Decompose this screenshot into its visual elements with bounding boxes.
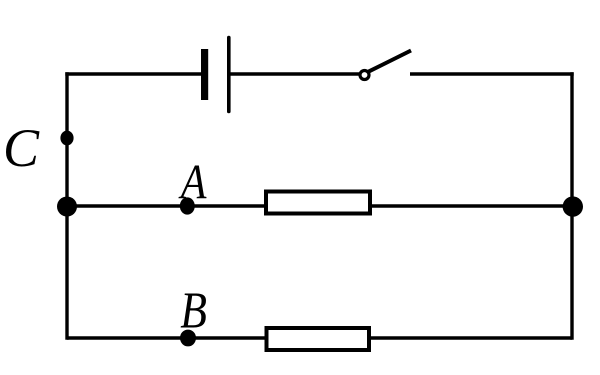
wire: middle branch left segment <box>67 204 266 207</box>
node C dot <box>60 131 73 146</box>
junction dot right (node at middle branch) <box>563 196 583 216</box>
resistor R2 (bottom branch) <box>267 328 370 350</box>
node B dot <box>180 330 196 347</box>
wire: middle branch right segment <box>370 204 572 207</box>
wire: bottom branch right segment <box>369 336 572 339</box>
svg-text:A: A <box>178 154 207 209</box>
wire: battery to switch <box>229 72 360 75</box>
resistor R1 (middle branch) <box>266 192 370 214</box>
wire: right vertical <box>570 72 573 339</box>
wire: left vertical (C branch) <box>65 72 68 339</box>
switch pivot circle <box>360 71 369 80</box>
battery negative plate (short thick) <box>201 49 208 100</box>
svg-text:C: C <box>3 118 40 178</box>
junction dot left (node at middle branch) <box>57 197 77 217</box>
wire: top-left horizontal to battery <box>65 72 201 75</box>
wire: bottom branch left segment <box>67 336 267 339</box>
wire: switch to top-right corner <box>410 72 574 75</box>
node A dot <box>180 197 195 214</box>
switch lever <box>369 51 411 72</box>
battery positive plate (long thin) <box>227 38 231 112</box>
svg-text:B: B <box>180 282 207 339</box>
